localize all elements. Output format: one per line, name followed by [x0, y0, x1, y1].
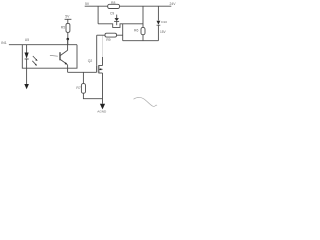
resistor R5 — [61, 23, 70, 32]
wire emission arrow 1 of U5 — [33, 56, 38, 61]
ground (arrow style) below LED — [24, 84, 29, 89]
resistor R7 — [76, 84, 85, 94]
wire rail drop at x98 — [97, 6, 99, 24]
wire source of Q2 down — [102, 73, 104, 104]
wire emission arrow 2 of U5 — [32, 61, 37, 66]
transistor Q2 (N-MOSFET) — [88, 59, 103, 73]
svg-text:IN1: IN1 — [1, 41, 7, 45]
svg-text:R9: R9 — [106, 38, 110, 42]
resistor R6 — [134, 6, 145, 41]
wire gate net horizontal — [68, 71, 97, 73]
power 5V symbol above R5 — [65, 14, 72, 23]
diode D10 (zener) — [157, 6, 168, 41]
wire top rail right segment — [120, 5, 172, 7]
svg-text:Q2: Q2 — [88, 59, 93, 63]
wire input to optocoupler box top — [9, 44, 77, 46]
svg-text:R8: R8 — [111, 1, 115, 5]
wire drop to R9 and bottom net — [122, 24, 124, 41]
svg-text:AGND: AGND — [97, 110, 107, 114]
node A junction dot — [67, 38, 70, 41]
wire R9 right lead — [117, 34, 123, 36]
op-amp U5 optocoupler box — [22, 45, 77, 68]
wire top rail left segment — [85, 5, 108, 7]
svg-text:U5: U5 — [25, 38, 29, 42]
ground AGND arrow — [100, 104, 105, 110]
svg-text:R5: R5 — [61, 25, 65, 29]
wire drain of Q2 up — [102, 57, 104, 66]
capacitor C9 (polarized, vertical) — [110, 11, 119, 25]
wire pre-R8 net with hop — [98, 24, 143, 28]
svg-text:24V: 24V — [170, 2, 177, 6]
wire collector of U5 up to node A — [67, 39, 69, 50]
wire annotation squiggle — [134, 97, 158, 106]
wire base tick of U5 phototransistor — [50, 54, 58, 57]
resistor R8 — [108, 1, 120, 9]
wire R7 top lead — [82, 72, 84, 83]
svg-text:R7: R7 — [76, 86, 80, 90]
diode D-led of U5 (LED) — [25, 45, 29, 84]
resistor R9 — [105, 33, 117, 42]
wire R5 bottom to collector node — [67, 32, 69, 39]
wire emitter of U5 down — [67, 65, 69, 73]
svg-text:D10: D10 — [161, 20, 167, 24]
wire node A down to box top — [67, 39, 69, 45]
wire R7 bottom lead to source net — [83, 93, 102, 99]
svg-text:5V: 5V — [85, 2, 90, 6]
svg-text:15V: 15V — [160, 30, 167, 34]
wire drain of Q2 up faint part — [102, 35, 104, 57]
wire bottom net right section — [123, 40, 159, 42]
wire R9 left lead — [97, 34, 105, 36]
svg-text:R6: R6 — [134, 28, 138, 32]
wire gate pulldown drop from R9 — [96, 35, 98, 66]
transistor Q-photo of U5 (phototransistor) — [60, 50, 68, 65]
svg-text:C9: C9 — [110, 11, 114, 15]
svg-text:5V: 5V — [65, 14, 70, 18]
